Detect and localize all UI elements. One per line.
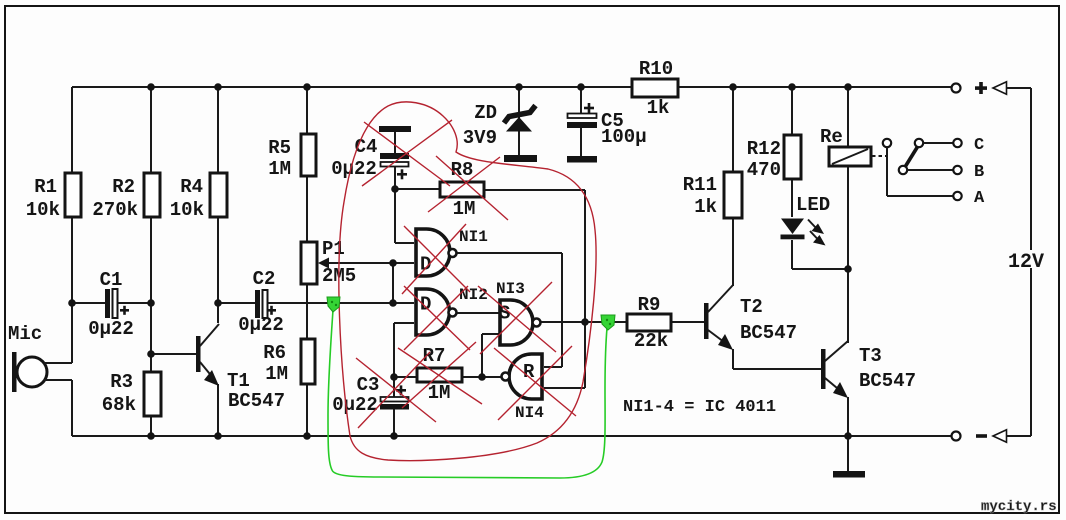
- minus sign: [976, 434, 987, 438]
- capacitor C5: [567, 103, 597, 163]
- microphone Mic: [12, 352, 72, 392]
- wire P1 wiper to NI1 input: [322, 262, 414, 264]
- node dots mid: [68, 299, 76, 307]
- resistor R2: [144, 173, 160, 217]
- svg-text:0µ22: 0µ22: [332, 394, 378, 416]
- supply arrow bottom: [993, 430, 1007, 442]
- wire T1 base: [151, 353, 196, 355]
- red cross over R7: [398, 342, 482, 408]
- wire R12/LED column: [791, 87, 793, 269]
- svg-text:A: A: [974, 189, 985, 208]
- wire R5/P1/R6 column: [306, 87, 308, 436]
- transistor T3: [821, 341, 848, 398]
- svg-text:270k: 270k: [92, 199, 138, 221]
- svg-text:Re: Re: [820, 126, 843, 148]
- svg-text:R12: R12: [747, 138, 781, 160]
- svg-text:68k: 68k: [102, 394, 136, 416]
- svg-text:0µ22: 0µ22: [331, 158, 377, 180]
- potentiometer P1 wiper arrow: [318, 258, 329, 269]
- green marker blob right: [601, 315, 615, 330]
- wire R4/T1 column: [217, 87, 219, 436]
- svg-text:1k: 1k: [694, 196, 717, 218]
- resistor R10: [632, 79, 678, 97]
- resistor R11: [724, 172, 742, 218]
- resistor R7: [417, 368, 462, 382]
- svg-text:22k: 22k: [634, 330, 668, 352]
- wire C4 node to R8: [395, 188, 440, 190]
- wire R2/R3 column: [150, 87, 152, 436]
- svg-text:R8: R8: [451, 159, 474, 181]
- svg-text:R6: R6: [263, 342, 286, 364]
- wire pivot to B terminal: [908, 169, 954, 171]
- svg-text:R10: R10: [639, 58, 673, 80]
- NAND gate NI1: [416, 229, 457, 276]
- capacitor C1: [105, 289, 129, 318]
- red cross over C3: [356, 352, 436, 428]
- transistor T1: [196, 324, 219, 386]
- green marker blob left: [327, 297, 340, 312]
- svg-text:T2: T2: [740, 296, 763, 318]
- svg-text:NI2: NI2: [459, 286, 488, 304]
- wire left column R1/mic: [71, 87, 73, 436]
- zener diode ZD: [504, 106, 537, 163]
- wire ZD column: [518, 87, 520, 156]
- svg-text:R1: R1: [34, 176, 57, 198]
- NAND gate NI3: [499, 300, 541, 345]
- wire R9 to T2 base: [671, 321, 704, 323]
- svg-text:P1: P1: [322, 238, 345, 260]
- wire C4 node down to NI1 top input: [395, 132, 414, 243]
- svg-text:10k: 10k: [170, 199, 204, 221]
- svg-text:R9: R9: [638, 294, 661, 316]
- svg-text:C1: C1: [100, 269, 123, 291]
- red cross over R8: [428, 156, 508, 220]
- svg-text:1M: 1M: [265, 363, 288, 385]
- svg-text:1M: 1M: [428, 382, 451, 404]
- capacitor C2: [255, 290, 276, 318]
- svg-text:C2: C2: [253, 268, 276, 290]
- resistor R6: [301, 339, 315, 384]
- svg-text:100µ: 100µ: [601, 126, 647, 148]
- wire NI3 output to R9: [540, 321, 627, 323]
- ground symbol: [833, 471, 865, 478]
- terminal C: [953, 139, 961, 147]
- svg-text:LED: LED: [796, 194, 830, 216]
- resistor R8: [440, 182, 484, 197]
- wire C5 column: [580, 87, 582, 157]
- svg-text:0µ22: 0µ22: [88, 318, 134, 340]
- switch pole contact: [883, 139, 891, 147]
- node dots top rail: [147, 83, 155, 91]
- red cross over NI3: [478, 282, 556, 354]
- terminal B: [953, 166, 961, 174]
- svg-text:T1: T1: [227, 370, 250, 392]
- node dots bottom rail: [147, 432, 155, 440]
- svg-text:C: C: [974, 136, 984, 155]
- transistor T2: [704, 285, 733, 350]
- wire bottom supply rail: [72, 435, 951, 437]
- red cross over NI2: [404, 286, 470, 350]
- svg-text:470: 470: [747, 159, 781, 181]
- wire T3 emitter to ground: [847, 397, 849, 471]
- red cross over NI4: [494, 346, 576, 420]
- svg-text:BC547: BC547: [740, 322, 797, 344]
- svg-text:1M: 1M: [453, 198, 476, 220]
- svg-text:1M: 1M: [268, 158, 291, 180]
- svg-text:D: D: [420, 294, 431, 316]
- wire pole down to row A: [887, 148, 953, 197]
- svg-text:B: B: [974, 163, 984, 182]
- resistor R3: [144, 372, 161, 416]
- wire R7 left: [394, 376, 417, 378]
- switch lever top contact: [915, 139, 923, 147]
- svg-text:BC547: BC547: [228, 390, 285, 412]
- wire NI2 output to NI3: [456, 312, 499, 314]
- wire NI2 lower input to R7/C3 node: [394, 323, 414, 377]
- wire node join wiper/C2: [392, 263, 394, 303]
- wire LED cathode to relay column: [792, 268, 848, 270]
- terminal plus: [952, 84, 961, 93]
- wire 12V loop: [1007, 88, 1032, 436]
- wire T2 emitter to T3 base: [733, 349, 821, 369]
- svg-text:NI1: NI1: [459, 228, 488, 246]
- green annotation wire: [328, 310, 607, 478]
- svg-text:Mic: Mic: [8, 323, 42, 345]
- supply arrow top: [993, 82, 1007, 94]
- svg-text:R11: R11: [683, 174, 717, 196]
- wire R8 right feedback to latch node: [484, 190, 585, 322]
- svg-text:T3: T3: [859, 345, 882, 367]
- svg-text:R5: R5: [268, 137, 291, 159]
- wire lever to C terminal: [924, 142, 954, 144]
- red cross over NI1: [402, 224, 470, 294]
- relay dashed actuation link: [872, 155, 886, 157]
- switch lever pivot contact: [899, 166, 907, 174]
- resistor R9: [627, 314, 671, 331]
- capacitor C4: [379, 126, 411, 179]
- svg-text:10k: 10k: [26, 199, 60, 221]
- capacitor C3: [380, 385, 409, 409]
- resistor R1: [65, 173, 81, 217]
- resistor R4: [210, 173, 227, 217]
- wire latch node down to NI4 input: [544, 322, 585, 388]
- svg-text:0µ22: 0µ22: [238, 314, 284, 336]
- svg-text:NI1-4 = IC 4011: NI1-4 = IC 4011: [623, 398, 776, 417]
- wire NI3 lower input to latch: [482, 334, 499, 377]
- svg-text:12V: 12V: [1008, 251, 1044, 274]
- svg-text:ZD: ZD: [474, 102, 497, 124]
- svg-text:3V9: 3V9: [463, 127, 497, 149]
- switch lever: [905, 146, 918, 167]
- wire C3 column: [393, 377, 395, 436]
- plus sign: [975, 86, 987, 90]
- NAND gate NI2: [416, 289, 457, 335]
- wire C1 links: [72, 302, 151, 304]
- LED: [781, 219, 826, 246]
- wire relay/T3 collector column: [847, 87, 849, 343]
- resistor R5: [301, 134, 316, 176]
- wire R11/T2 collector column: [732, 87, 734, 286]
- svg-text:1k: 1k: [647, 97, 670, 119]
- svg-text:R4: R4: [180, 176, 203, 198]
- wire top supply rail: [72, 86, 951, 88]
- NAND gate NI4 (mirrored): [502, 354, 543, 399]
- svg-text:NI4: NI4: [515, 404, 544, 422]
- red annotation big loop: [339, 102, 596, 461]
- svg-text:NI3: NI3: [496, 280, 525, 298]
- svg-text:R3: R3: [110, 371, 133, 393]
- terminal A: [953, 192, 961, 200]
- potentiometer P1: [301, 242, 317, 284]
- resistor R12: [784, 135, 801, 179]
- wire R7 right to NI4 output: [462, 376, 501, 378]
- wire NI1 output to NI4 input: [456, 253, 562, 367]
- wire C2 links: [218, 302, 414, 304]
- svg-text:BC547: BC547: [859, 370, 916, 392]
- terminal minus: [952, 432, 961, 441]
- relay Re coil: [829, 147, 871, 166]
- svg-text:mycity.rs: mycity.rs: [981, 499, 1057, 515]
- red cross over C4: [362, 120, 452, 186]
- label 12V: [1005, 250, 1054, 268]
- svg-text:C3: C3: [357, 374, 380, 396]
- svg-text:R2: R2: [112, 176, 135, 198]
